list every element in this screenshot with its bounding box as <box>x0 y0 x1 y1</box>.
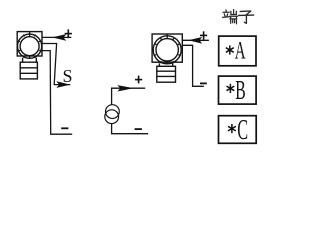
power supply source circles <box>105 105 120 124</box>
arrowhead on T2 plus wire (points left) <box>188 37 202 44</box>
minus label at supply wire <box>135 128 142 130</box>
wire T2 minus <box>182 45 204 86</box>
transmitter T1 flange outer circle <box>18 34 42 58</box>
transmitter T1 <box>17 32 42 79</box>
arrowhead on T1 plus wire (points left) <box>52 34 66 41</box>
transmitter T2 terminal body <box>157 66 176 82</box>
plus label at T2 wire end <box>200 31 207 39</box>
minus label at T2 wire end <box>200 82 207 84</box>
wire supply minus <box>112 124 149 134</box>
terminal box *A <box>219 36 256 66</box>
transmitter T2 flange outer circle <box>153 36 181 64</box>
arrowhead S (points right) <box>56 81 70 88</box>
transmitter T2 flange bolt ticks <box>154 34 181 64</box>
asterisk of *C <box>228 124 236 133</box>
transmitter T1 flange inner circle <box>20 37 39 56</box>
transmitter T1 neck <box>22 58 24 63</box>
terminal box *B <box>219 76 257 104</box>
wire T1 plus <box>42 36 71 38</box>
label 端子 (terminals) drawn as strokes: char 端 <box>223 10 238 24</box>
wire T2 plus <box>182 39 209 41</box>
svg-text:S: S <box>63 66 73 86</box>
svg-text:B: B <box>235 75 245 106</box>
transmitter T2 flange inner circle <box>156 39 178 61</box>
asterisk of *B <box>227 84 235 93</box>
svg-text:A: A <box>235 38 246 65</box>
asterisk of *A <box>226 45 234 54</box>
svg-text:C: C <box>237 115 248 146</box>
transmitter T1 flange bolt ticks <box>18 32 41 59</box>
wire supply plus <box>112 88 146 105</box>
transmitter T1 housing square <box>17 32 42 56</box>
transmitter T2 neck <box>158 63 160 66</box>
transmitter T2 <box>152 34 182 82</box>
label 端子 (terminals) drawn as strokes: char 子 <box>239 11 254 23</box>
minus label on T1 lower wire end <box>61 127 68 129</box>
wire T1 minus <box>42 51 72 135</box>
wire T1 signal S <box>42 44 70 85</box>
transmitter T2 housing square <box>152 34 182 62</box>
terminal box *C <box>219 116 257 144</box>
plus label at T1 wire end <box>65 29 72 38</box>
arrowhead supply plus (points right) <box>117 85 134 91</box>
plus label at supply wire <box>135 76 142 84</box>
transmitter T1 terminal body <box>20 62 37 79</box>
